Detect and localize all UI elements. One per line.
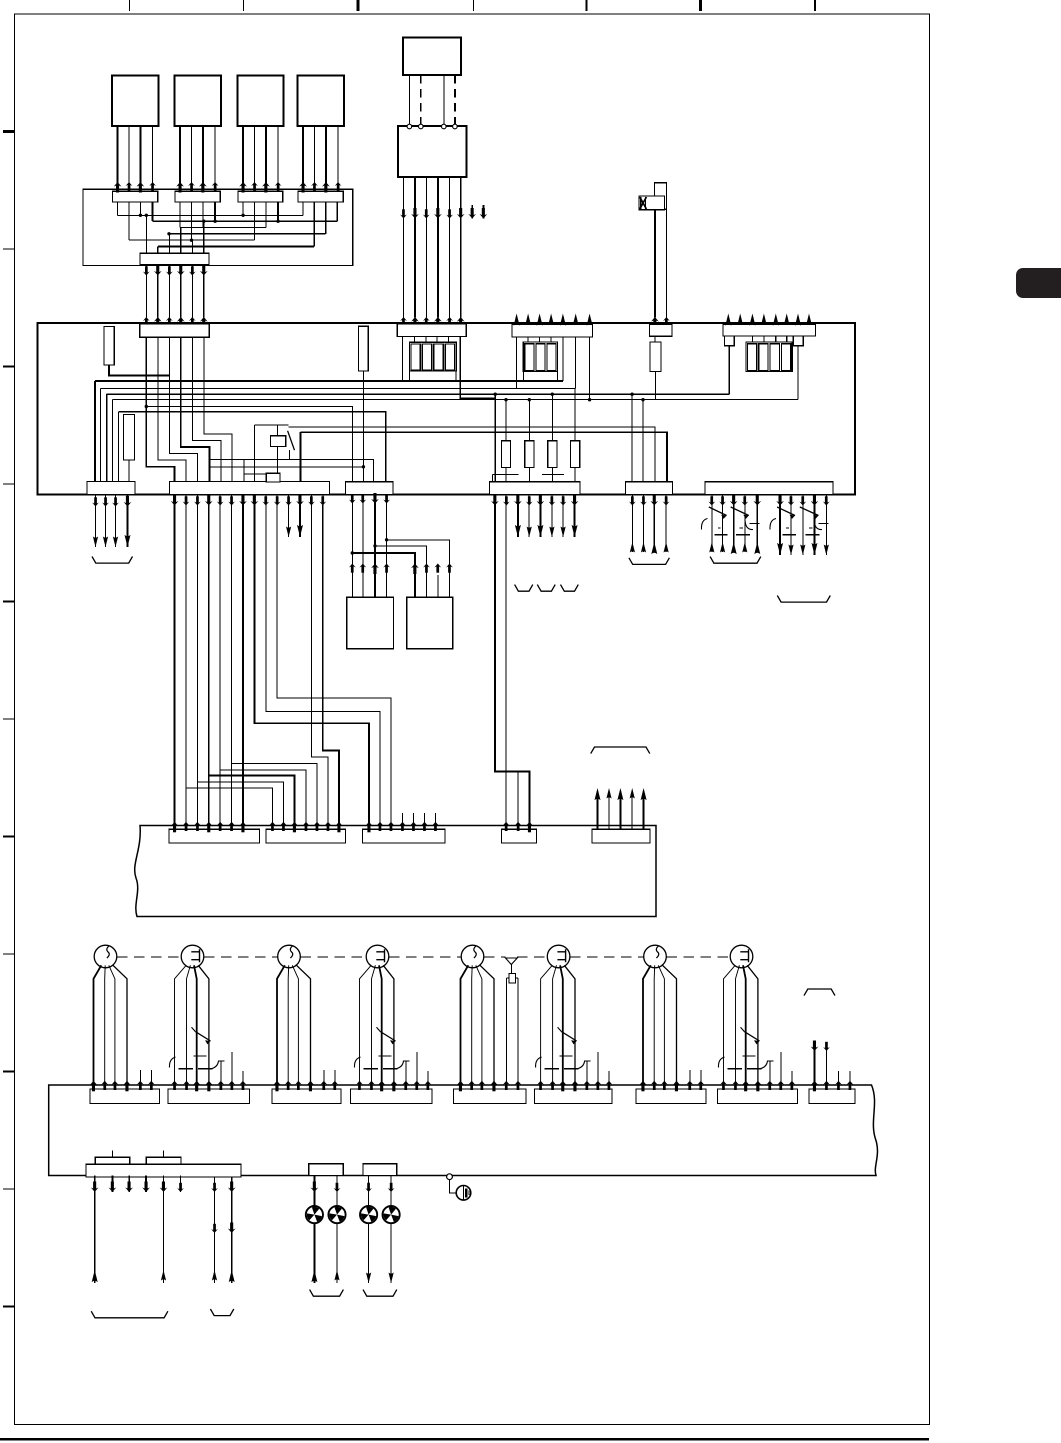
harness connector strip S5 — [592, 829, 650, 843]
resistor network RN2 — [523, 342, 557, 372]
wire stub — [826, 1044, 828, 1089]
wire — [254, 505, 369, 829]
wire tick — [819, 523, 829, 525]
coil link dashed line — [117, 956, 181, 958]
wire — [631, 495, 633, 553]
ECU connector strip T1 — [140, 324, 209, 338]
wire stub — [814, 1044, 816, 1089]
connector bracket — [515, 585, 533, 592]
wire — [288, 495, 290, 506]
wire — [208, 495, 210, 506]
connector bracket — [804, 989, 835, 996]
ECU connector strip F — [705, 482, 833, 495]
wire — [503, 502, 510, 506]
wire — [191, 126, 193, 189]
ruler tick — [3, 600, 15, 602]
wire stub — [427, 1071, 429, 1089]
ruler tick — [3, 365, 15, 367]
wire — [219, 505, 221, 829]
harness connector strip — [168, 1089, 250, 1104]
capacitor — [714, 534, 727, 536]
wire — [653, 965, 656, 1089]
wire — [244, 473, 267, 475]
wire stub — [435, 813, 437, 829]
wire hook — [169, 1057, 175, 1068]
wire — [231, 505, 233, 829]
wire — [352, 553, 415, 597]
wire — [562, 337, 564, 381]
fan motor symbol — [328, 1206, 345, 1223]
wire — [437, 177, 439, 318]
wire — [254, 202, 256, 240]
resistor R1 — [104, 326, 114, 365]
wire — [109, 965, 115, 1089]
wire — [516, 977, 518, 979]
wire — [516, 337, 518, 388]
connector strip under sensor box 1 — [113, 191, 158, 202]
wire — [413, 337, 415, 343]
fan motor symbol — [306, 1206, 323, 1223]
horn component — [655, 183, 667, 209]
wire — [711, 495, 713, 553]
connector strip under sensor box 4 — [298, 191, 343, 202]
wire — [790, 495, 792, 556]
wire rail — [118, 214, 304, 216]
ECU connector strip T4 — [650, 325, 673, 337]
wire — [372, 965, 376, 1089]
relay contact — [777, 507, 795, 516]
wire stub — [700, 1070, 702, 1089]
ECU connector strip C — [346, 482, 394, 495]
wire stub — [791, 1071, 793, 1089]
wire — [336, 1176, 338, 1284]
wire — [541, 965, 553, 1089]
wire tick — [750, 523, 760, 525]
harness connector strip — [90, 1089, 160, 1104]
wire — [204, 337, 232, 481]
wire — [425, 177, 427, 318]
harness connector strip S3 — [363, 829, 446, 843]
wire — [663, 965, 677, 1089]
ruler tick — [129, 0, 131, 11]
wire — [192, 337, 221, 481]
relay contact — [800, 507, 819, 516]
ignition coil (primary) — [278, 945, 301, 968]
harness connector strip — [454, 1089, 527, 1104]
relay contact — [731, 507, 749, 516]
wire — [128, 460, 130, 481]
wire — [276, 495, 278, 506]
relay K1 contact — [288, 431, 295, 450]
terminal bubble — [442, 124, 447, 129]
actuator box 1 — [347, 597, 394, 649]
wire — [113, 965, 127, 1089]
wire stub — [471, 205, 473, 219]
ruler tick — [3, 1070, 15, 1072]
body harness box (torn edge) — [49, 1085, 878, 1176]
resistor R2 — [124, 415, 135, 461]
wire — [360, 965, 372, 1089]
wire stub — [550, 317, 552, 324]
wire stub — [242, 1071, 244, 1089]
terminal bubble — [407, 124, 412, 129]
wire — [157, 265, 159, 318]
wire — [169, 337, 197, 481]
wire — [562, 495, 564, 538]
wire — [180, 228, 182, 254]
connector bracket — [210, 1309, 233, 1316]
wire stub — [405, 1061, 407, 1089]
ruler tick — [3, 718, 15, 720]
wire hook — [354, 1057, 360, 1068]
wire stub — [402, 813, 404, 829]
ruler tick — [3, 1188, 15, 1190]
ruler tick — [243, 0, 245, 11]
wire — [786, 336, 788, 342]
bus rail 3 — [107, 393, 730, 395]
wire — [480, 965, 494, 1089]
wire — [163, 1192, 165, 1283]
ECU connector strip E — [626, 482, 673, 495]
wire stub — [763, 317, 765, 325]
wire — [146, 337, 174, 481]
relay contact — [381, 1032, 396, 1041]
wire — [187, 965, 191, 1089]
wire stub — [769, 1061, 771, 1089]
wire — [575, 337, 577, 388]
wire — [802, 495, 804, 556]
wire — [402, 337, 404, 382]
wire stub — [516, 317, 518, 324]
wire — [374, 495, 376, 598]
wire — [725, 336, 735, 346]
harness junction box — [83, 189, 353, 265]
wire — [450, 1180, 464, 1193]
connector bracket — [777, 596, 830, 603]
wire stub — [527, 317, 529, 324]
wire — [242, 495, 244, 506]
wire — [265, 126, 267, 189]
wire — [449, 177, 451, 318]
wire — [277, 505, 391, 829]
harness connector strip S2 — [266, 829, 346, 843]
wire stub — [780, 1052, 782, 1089]
wire — [564, 965, 575, 1089]
wire — [311, 505, 328, 829]
wire — [109, 365, 169, 375]
ruler tick — [699, 0, 702, 11]
wire — [277, 202, 279, 221]
wire — [550, 337, 552, 342]
wire — [655, 371, 657, 399]
bus rail 6 — [119, 412, 386, 482]
ruler tick — [3, 130, 15, 133]
wire stub — [597, 1052, 599, 1089]
wire — [175, 965, 187, 1089]
wire — [94, 381, 96, 482]
wire — [139, 202, 141, 215]
bus rail 1 — [95, 380, 563, 382]
wire — [191, 265, 193, 318]
wire hook — [718, 1057, 724, 1068]
wire — [322, 495, 324, 506]
engine harness box (torn edge) — [135, 826, 656, 917]
wire — [351, 495, 353, 598]
wire stub — [597, 792, 599, 830]
wire — [643, 965, 651, 1089]
wire — [539, 495, 541, 538]
junction — [145, 405, 148, 408]
wire stub — [689, 1070, 691, 1089]
wire — [94, 1176, 96, 1193]
fuse tab 2 — [146, 1157, 181, 1164]
wire — [180, 1176, 182, 1193]
wire stub — [838, 1071, 840, 1089]
wire — [231, 1177, 233, 1283]
wire — [323, 505, 339, 829]
connector bracket — [629, 558, 670, 565]
component P1 — [266, 473, 280, 482]
harness connector strip — [636, 1089, 706, 1104]
junction — [276, 220, 279, 223]
wire — [208, 505, 210, 829]
wire — [505, 495, 507, 830]
wire — [362, 495, 364, 598]
wire — [425, 337, 427, 343]
wire — [299, 495, 301, 506]
wire — [94, 1192, 96, 1283]
capacitor — [783, 534, 796, 536]
wire — [168, 265, 170, 318]
wire — [220, 505, 306, 829]
ECU connector strip B — [170, 482, 330, 495]
wire — [94, 965, 102, 1089]
fuse F4 — [574, 388, 576, 440]
wire stub — [643, 792, 645, 830]
wire — [174, 505, 176, 829]
wire rail — [153, 220, 338, 222]
wire — [242, 126, 244, 189]
ECU connector strip T3 — [512, 325, 593, 338]
wire — [127, 495, 129, 548]
wire stub — [413, 813, 415, 829]
wire stub — [437, 575, 439, 597]
wire stub — [231, 1052, 233, 1089]
wire — [299, 505, 301, 537]
wire — [436, 337, 438, 343]
ignition coil (secondary) — [730, 945, 753, 968]
wire stub — [586, 1061, 588, 1089]
ruler tick — [473, 0, 475, 11]
ruler tick — [3, 483, 15, 485]
wire — [460, 337, 495, 399]
wire — [100, 388, 102, 481]
wire — [631, 394, 633, 482]
wire — [310, 495, 312, 506]
wire — [174, 495, 176, 506]
ignition coil (primary) — [461, 945, 484, 968]
wire — [117, 126, 119, 189]
wire — [106, 394, 108, 481]
wire stub — [562, 317, 564, 324]
wire stub — [751, 317, 753, 325]
fan motor symbol — [383, 1206, 400, 1223]
wire — [775, 336, 777, 342]
wire rail — [158, 246, 314, 248]
wire — [288, 505, 290, 537]
wire — [797, 346, 799, 400]
wire — [368, 1176, 370, 1284]
wire — [242, 505, 244, 829]
ground symbol — [456, 1186, 471, 1201]
wire — [203, 265, 205, 318]
wire stub — [631, 792, 633, 830]
junction — [213, 220, 216, 223]
wire — [665, 209, 667, 317]
wire stub — [575, 317, 577, 324]
wire — [528, 495, 530, 538]
wire — [408, 75, 410, 124]
wire — [168, 375, 170, 453]
junction — [139, 214, 142, 217]
wire — [191, 202, 193, 240]
fuse tab 1 — [95, 1157, 130, 1164]
fuse F3 — [551, 394, 553, 441]
connector bracket — [710, 557, 761, 564]
antenna symbol — [506, 958, 518, 965]
wire — [551, 495, 553, 538]
wire — [117, 202, 119, 215]
wire — [383, 965, 394, 1089]
wire — [658, 965, 664, 1089]
wire stub — [150, 1070, 152, 1089]
wire — [493, 473, 519, 475]
wire stub — [786, 317, 788, 325]
wire — [194, 965, 197, 1089]
fan motor symbol — [360, 1206, 377, 1223]
terminal bubble — [453, 124, 458, 129]
wire stub — [424, 813, 426, 829]
relay contact — [745, 1032, 760, 1041]
wire — [379, 965, 382, 1089]
ignition coil (secondary) — [547, 945, 570, 968]
wire — [314, 126, 316, 189]
wire — [325, 202, 327, 234]
wire rail — [210, 460, 374, 482]
junction — [167, 232, 170, 235]
wire stub — [416, 1052, 418, 1089]
wire stub — [589, 317, 591, 324]
wire — [181, 337, 210, 481]
wire — [642, 400, 644, 482]
wire hook — [536, 1057, 542, 1068]
wire — [517, 772, 519, 830]
control unit box M1 — [403, 38, 461, 76]
wire — [443, 75, 445, 124]
fuse F2 — [528, 400, 530, 441]
wire — [104, 965, 107, 1089]
ruler tick — [3, 1305, 15, 1307]
wire — [145, 215, 147, 253]
wire — [362, 371, 364, 482]
wire stub — [539, 317, 541, 324]
connector bracket — [91, 1311, 168, 1318]
wire — [494, 394, 496, 482]
wire — [527, 337, 529, 342]
wire — [779, 495, 781, 556]
collector strip — [140, 253, 209, 264]
wire — [203, 221, 205, 253]
wire rail — [129, 239, 255, 241]
wire — [654, 210, 656, 318]
bus rail 7 — [289, 427, 655, 482]
wire — [724, 965, 736, 1089]
wire — [277, 965, 285, 1089]
wire — [733, 495, 735, 553]
wire — [722, 495, 724, 553]
wire — [163, 1176, 165, 1193]
wire — [186, 505, 273, 829]
wire — [266, 505, 380, 829]
ECU connector strip T5 — [723, 325, 816, 337]
wire rail — [169, 233, 326, 235]
wire — [557, 371, 559, 381]
relay contact — [196, 1032, 211, 1041]
wire — [287, 965, 290, 1089]
wire — [560, 965, 563, 1089]
wire — [191, 240, 193, 253]
capacitor — [805, 534, 819, 536]
wire — [751, 336, 753, 342]
ECU connector strip D — [490, 482, 581, 495]
wire — [202, 126, 204, 189]
ruler tick — [3, 953, 15, 955]
lamp connector box L — [309, 1164, 344, 1176]
ignition coil (primary) — [644, 945, 667, 968]
wire — [179, 202, 181, 228]
terminal bubble — [419, 124, 424, 129]
ruler tick — [3, 835, 15, 837]
connector bracket — [363, 1290, 397, 1297]
wire — [506, 977, 509, 979]
wire — [763, 336, 765, 342]
wire — [196, 505, 198, 829]
harness connector strip — [809, 1089, 855, 1104]
wire — [277, 126, 279, 189]
connector bracket — [92, 557, 133, 564]
connector bracket — [310, 1290, 344, 1297]
wire — [386, 495, 388, 598]
connector bracket — [561, 585, 579, 592]
wire stub — [323, 1070, 325, 1089]
wire stub — [334, 1070, 336, 1089]
wire — [214, 1177, 216, 1283]
horn X mark — [640, 197, 647, 209]
ground tap — [447, 1174, 453, 1180]
harness connector strip — [718, 1089, 798, 1104]
wire — [542, 473, 564, 475]
harness connector strip — [351, 1089, 433, 1104]
wire — [460, 177, 462, 318]
bus rail 2 — [101, 387, 576, 389]
bus rail 4 — [113, 399, 798, 401]
wire — [517, 495, 519, 538]
wire — [337, 126, 339, 189]
wire — [814, 495, 816, 556]
wire hook — [770, 519, 776, 530]
wire — [491, 501, 499, 506]
fuse F1 — [505, 400, 507, 441]
